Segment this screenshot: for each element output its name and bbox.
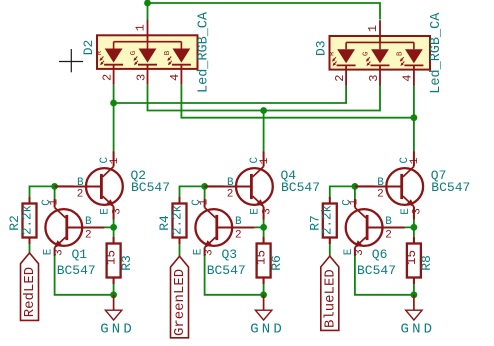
svg-text:2: 2 (377, 189, 384, 201)
svg-text:B: B (85, 216, 92, 228)
svg-text:B: B (377, 177, 384, 189)
RGB LED package D3 (Led_RGB_CA) (314, 12, 445, 94)
svg-text:G: G (130, 50, 138, 55)
origin crosshair (59, 49, 83, 72)
wire Q4 base maroon segment (205, 185, 224, 187)
svg-text:3: 3 (412, 208, 424, 215)
svg-text:GND: GND (100, 322, 135, 338)
svg-text:Led_RGB_CA: Led_RGB_CA (197, 11, 212, 93)
wire red net drop to Q2 collector (113, 103, 115, 153)
wire R4 bottom to flag (179, 238, 181, 257)
svg-text:D2: D2 (81, 40, 96, 56)
svg-text:G: G (362, 51, 370, 56)
svg-text:R6: R6 (269, 255, 284, 271)
resistor R8 15 (405, 237, 434, 284)
svg-text:E: E (43, 248, 55, 255)
svg-text:1: 1 (259, 157, 271, 164)
svg-text:2.2k: 2.2k (170, 205, 184, 235)
svg-text:E: E (193, 248, 205, 255)
junction Q6 base / Q7 emitter (411, 224, 418, 231)
svg-text:2: 2 (385, 230, 392, 242)
junction ground rail (110, 291, 117, 298)
svg-text:R4: R4 (157, 215, 172, 231)
wire Q3 base (243, 226, 263, 228)
svg-text:E: E (343, 248, 355, 255)
svg-text:R: R (96, 50, 104, 55)
svg-text:3: 3 (134, 74, 148, 81)
wire green net drop to Q4 collector (263, 111, 265, 154)
wire R2 top to Q2 base / Q1 collector (30, 186, 55, 199)
transistor Q3 BC547 (191, 199, 254, 279)
resistor R7 2.2k (307, 197, 337, 244)
svg-text:1: 1 (109, 157, 121, 164)
svg-text:15: 15 (405, 250, 419, 265)
junction blue net (411, 114, 418, 121)
wire Q3 emitter to ground rail (205, 256, 264, 295)
svg-text:E: E (400, 208, 412, 215)
wire Q6 base (394, 226, 414, 228)
svg-text:GND: GND (400, 322, 435, 338)
wire Q1 base (93, 226, 113, 228)
transistor Q7 BC547 (364, 152, 470, 220)
svg-text:B: B (385, 216, 392, 228)
RGB LED package D2 (Led_RGB_CA) (81, 11, 212, 93)
wire common-anode top bus (148, 3, 381, 20)
junction Q2 base (51, 183, 58, 190)
transistor Q4 BC547 (214, 152, 320, 220)
svg-text:Led_RGB_CA: Led_RGB_CA (429, 12, 444, 94)
svg-text:3: 3 (111, 208, 123, 215)
svg-text:B: B (77, 177, 84, 189)
net label RedLED (21, 253, 39, 321)
svg-text:2.2k: 2.2k (20, 205, 34, 235)
svg-text:1: 1 (198, 199, 210, 206)
svg-text:R8: R8 (419, 255, 434, 271)
wire green net D2.3 to D3.3 (148, 85, 381, 111)
wire Q7 base maroon segment (355, 185, 374, 187)
svg-text:Q3: Q3 (222, 247, 238, 262)
wire Q2 base maroon segment (55, 185, 74, 187)
svg-text:BC547: BC547 (131, 180, 170, 195)
svg-text:Q1: Q1 (72, 247, 88, 262)
svg-text:GND: GND (250, 322, 285, 338)
junction Q3 base / Q4 emitter (260, 224, 267, 231)
svg-text:BC547: BC547 (281, 180, 320, 195)
svg-text:3: 3 (354, 249, 366, 256)
svg-text:3: 3 (261, 208, 273, 215)
wire Q1 emitter to ground rail (55, 256, 114, 295)
svg-text:1: 1 (133, 24, 147, 31)
svg-text:E: E (100, 208, 112, 215)
wire Q6 emitter to ground rail (355, 256, 414, 295)
junction red net (110, 100, 117, 107)
ground symbol (100, 295, 135, 338)
svg-text:BC547: BC547 (357, 263, 396, 278)
resistor R2 2.2k (7, 197, 37, 244)
svg-text:3: 3 (204, 249, 216, 256)
svg-text:1: 1 (48, 199, 60, 206)
svg-text:15: 15 (105, 250, 119, 265)
wire R4 top to Q4 base / Q3 collector (180, 186, 205, 199)
wire Q4 emitter to R6 (263, 207, 265, 244)
net label GreenLED (171, 256, 189, 338)
svg-text:BC547: BC547 (207, 263, 246, 278)
net label BlueLED (321, 256, 339, 330)
svg-text:B: B (164, 50, 172, 55)
svg-text:BC547: BC547 (57, 263, 96, 278)
svg-text:1: 1 (366, 25, 380, 32)
svg-text:1: 1 (349, 199, 361, 206)
svg-text:RedLED: RedLED (22, 267, 38, 317)
wire R3 bottom to ground (113, 278, 115, 295)
resistor R4 2.2k (157, 197, 187, 244)
wire Q2 emitter to R3 (113, 207, 115, 244)
wire R6 bottom to ground (263, 278, 265, 295)
junction ground rail (260, 291, 267, 298)
svg-text:D3: D3 (314, 40, 329, 56)
svg-text:R2: R2 (7, 215, 22, 231)
resistor R6 15 (255, 237, 284, 284)
transistor Q1 BC547 (41, 199, 104, 279)
svg-text:1: 1 (409, 157, 421, 164)
wire R2 bottom to flag (29, 238, 31, 253)
svg-text:4: 4 (168, 74, 182, 81)
wire red net D2.2 to D3.2 (114, 85, 347, 103)
svg-text:B: B (227, 177, 234, 189)
svg-text:2.2k: 2.2k (321, 205, 335, 235)
svg-text:R: R (329, 51, 337, 56)
wire Q7 emitter to R8 (413, 207, 415, 244)
junction top bus (144, 0, 151, 6)
junction green net (260, 107, 267, 114)
junction Q7 base (352, 183, 359, 190)
svg-text:2: 2 (85, 230, 92, 242)
resistor R3 15 (105, 237, 134, 284)
wire D2 pin1 riser (147, 3, 149, 20)
svg-text:2: 2 (77, 189, 84, 201)
wire R8 bottom to ground (413, 278, 415, 295)
wire blue net D2.4 to D3.4 (181, 85, 414, 118)
wire R7 bottom to flag (329, 238, 331, 257)
svg-text:15: 15 (255, 250, 269, 265)
ground symbol (400, 295, 435, 338)
svg-text:3: 3 (54, 249, 66, 256)
svg-text:2: 2 (100, 74, 114, 81)
svg-text:2: 2 (235, 230, 242, 242)
svg-text:4: 4 (401, 74, 415, 81)
svg-text:B: B (235, 216, 242, 228)
svg-text:R7: R7 (307, 215, 322, 231)
svg-text:Q6: Q6 (372, 247, 388, 262)
svg-text:2: 2 (227, 189, 234, 201)
transistor Q6 BC547 (341, 199, 404, 279)
wire blue net drop to Q7 collector (413, 118, 415, 153)
junction Q4 base (201, 183, 208, 190)
svg-text:3: 3 (367, 74, 381, 81)
svg-text:2: 2 (333, 74, 347, 81)
svg-text:BlueLED: BlueLED (322, 269, 338, 328)
svg-text:BC547: BC547 (431, 180, 470, 195)
svg-text:R3: R3 (119, 255, 134, 271)
junction Q1 base / Q2 emitter (110, 224, 117, 231)
svg-text:E: E (250, 208, 262, 215)
transistor Q2 BC547 (64, 152, 170, 220)
wire R7 top to Q7 base / Q6 collector (330, 186, 355, 199)
ground symbol (250, 295, 285, 338)
svg-text:GreenLED: GreenLED (172, 269, 188, 336)
junction ground rail (411, 291, 418, 298)
svg-text:B: B (396, 51, 404, 56)
